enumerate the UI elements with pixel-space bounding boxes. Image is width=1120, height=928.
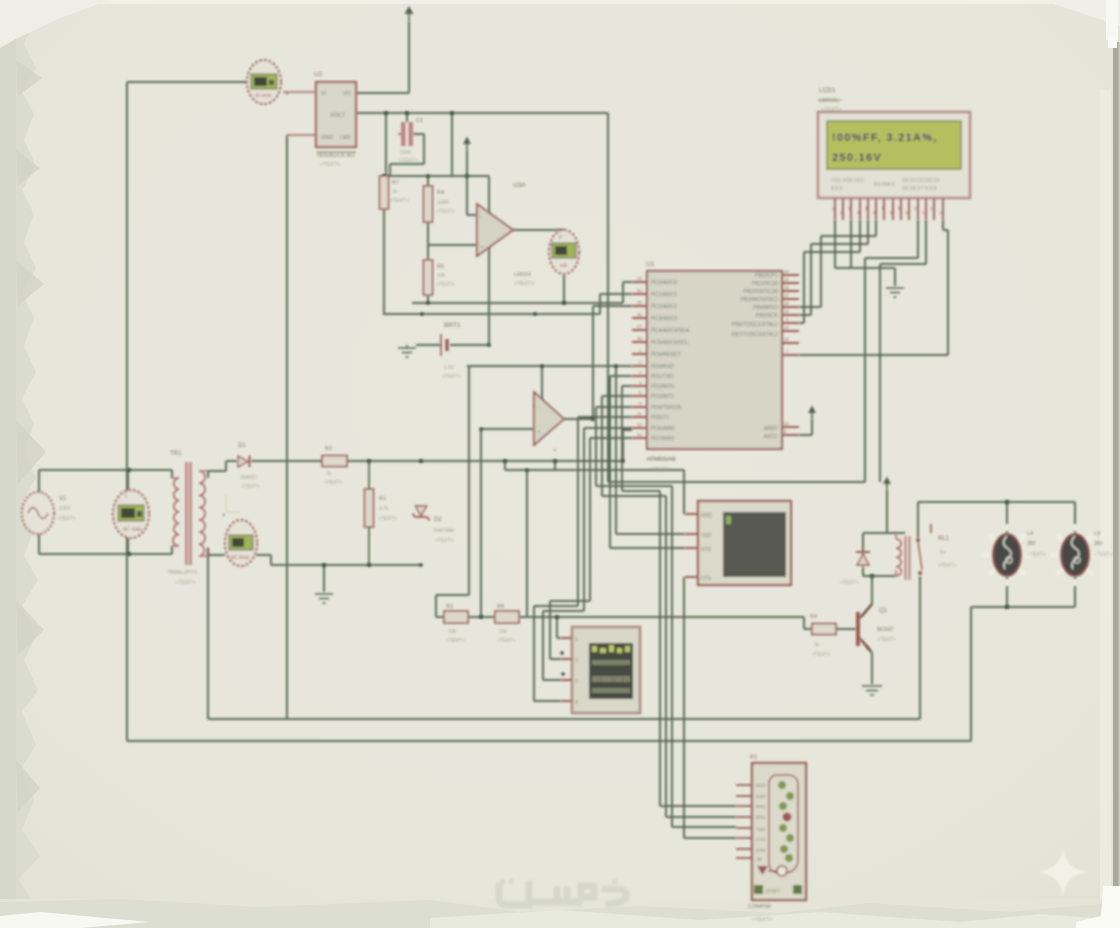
svg-text:PB7/TOSC2/XTAL2: PB7/TOSC2/XTAL2 bbox=[732, 332, 778, 338]
svg-text:1N4007: 1N4007 bbox=[240, 475, 258, 481]
svg-text:U3A: U3A bbox=[513, 182, 526, 189]
svg-text:12: 12 bbox=[637, 422, 642, 427]
svg-text:!00%FF, 3.21A%,: !00%FF, 3.21A%, bbox=[832, 132, 938, 144]
svg-text:R4: R4 bbox=[437, 190, 444, 196]
svg-text:AVCC: AVCC bbox=[764, 434, 778, 440]
svg-text:AC Amp: AC Amp bbox=[231, 555, 250, 561]
svg-text:<TEXT>: <TEXT> bbox=[436, 209, 455, 215]
svg-text:<TEXT>: <TEXT> bbox=[877, 637, 896, 643]
svg-text:D2: D2 bbox=[434, 517, 442, 523]
svg-text:1: 1 bbox=[575, 637, 578, 643]
svg-text:R7: R7 bbox=[392, 180, 399, 186]
svg-text:4.7k: 4.7k bbox=[379, 506, 389, 512]
svg-text:R4: R4 bbox=[810, 614, 817, 620]
svg-text:LM2: LM2 bbox=[340, 135, 351, 141]
svg-text:27: 27 bbox=[637, 324, 642, 329]
svg-text:VOLT: VOLT bbox=[330, 113, 346, 119]
svg-text:DCD: DCD bbox=[756, 783, 766, 788]
svg-text:PC1/ADC1: PC1/ADC1 bbox=[651, 292, 677, 298]
svg-text:10: 10 bbox=[905, 210, 910, 215]
svg-text:<TEXT>: <TEXT> bbox=[1094, 552, 1113, 558]
svg-text:PC2/ADC2: PC2/ADC2 bbox=[651, 304, 677, 310]
svg-text:<TEXT>: <TEXT> bbox=[650, 467, 670, 473]
svg-text:8 8 8: 8 8 8 bbox=[831, 186, 842, 192]
svg-text:RXD: RXD bbox=[701, 513, 712, 519]
svg-text:1k: 1k bbox=[814, 642, 820, 648]
svg-text:250.16V: 250.16V bbox=[832, 152, 882, 164]
svg-text:20: 20 bbox=[784, 337, 789, 342]
svg-text:10: 10 bbox=[784, 325, 789, 330]
svg-text:4: 4 bbox=[575, 700, 578, 706]
svg-text:D0 D1 D2 D3 D4: D0 D1 D2 D3 D4 bbox=[902, 178, 940, 184]
svg-text:U2: U2 bbox=[314, 71, 323, 78]
svg-text:RL1: RL1 bbox=[938, 536, 950, 542]
svg-text:+: + bbox=[124, 494, 128, 500]
svg-text:-: - bbox=[480, 215, 482, 221]
svg-text:10k: 10k bbox=[437, 273, 446, 279]
svg-text:TRAN-2P2S: TRAN-2P2S bbox=[167, 570, 198, 576]
svg-text:<TEXT>: <TEXT> bbox=[442, 374, 461, 380]
svg-text:PB2/SS/OC1B: PB2/SS/OC1B bbox=[744, 289, 779, 295]
svg-text:<TEXT>: <TEXT> bbox=[378, 516, 397, 522]
svg-text:PD0/RXD: PD0/RXD bbox=[651, 364, 674, 370]
svg-text:R3: R3 bbox=[446, 604, 453, 610]
svg-text:BC547: BC547 bbox=[877, 627, 894, 633]
svg-text:+: + bbox=[222, 513, 226, 519]
svg-text:PB1/OC1A: PB1/OC1A bbox=[752, 281, 778, 287]
svg-text:18: 18 bbox=[784, 301, 789, 306]
svg-text:R8: R8 bbox=[497, 604, 504, 610]
svg-text:PD3/INT1: PD3/INT1 bbox=[651, 394, 674, 400]
svg-text:<TEXT>: <TEXT> bbox=[812, 652, 831, 658]
svg-text:<TEXT>: <TEXT> bbox=[1027, 552, 1046, 558]
svg-text:2: 2 bbox=[575, 658, 578, 664]
svg-text:12: 12 bbox=[922, 210, 927, 215]
svg-text:<TEXT>: <TEXT> bbox=[390, 198, 409, 204]
svg-text:U1: U1 bbox=[646, 261, 655, 268]
svg-text:28V: 28V bbox=[1094, 541, 1104, 547]
svg-text:R2: R2 bbox=[325, 446, 332, 452]
svg-text:CTS: CTS bbox=[701, 576, 712, 582]
svg-text:<TEXT>: <TEXT> bbox=[324, 480, 343, 486]
svg-text:11: 11 bbox=[914, 206, 919, 211]
svg-text:VI: VI bbox=[321, 91, 327, 97]
svg-text:1k: 1k bbox=[326, 471, 332, 477]
svg-text:<TEXT>: <TEXT> bbox=[436, 282, 455, 288]
svg-text:28: 28 bbox=[637, 336, 642, 341]
svg-text:15: 15 bbox=[784, 277, 789, 282]
svg-text:<TEXT>: <TEXT> bbox=[752, 917, 772, 923]
svg-text:<TEXT>: <TEXT> bbox=[938, 563, 957, 569]
svg-text:TR1: TR1 bbox=[170, 451, 182, 457]
svg-text:RTS: RTS bbox=[756, 815, 765, 820]
svg-text:19: 19 bbox=[784, 309, 789, 314]
svg-text:LCD1: LCD1 bbox=[819, 87, 836, 94]
svg-text:5V: 5V bbox=[940, 550, 947, 556]
svg-text:TXD: TXD bbox=[701, 533, 711, 539]
svg-text:GND: GND bbox=[321, 135, 333, 141]
svg-text:3: 3 bbox=[575, 679, 578, 685]
svg-text:13: 13 bbox=[637, 432, 642, 437]
svg-text:28V: 28V bbox=[1027, 541, 1037, 547]
svg-text:<TEXT>: <TEXT> bbox=[446, 638, 465, 644]
svg-text:PD1/TXD: PD1/TXD bbox=[651, 374, 674, 380]
svg-text:V1: V1 bbox=[59, 496, 67, 502]
svg-text:D1: D1 bbox=[238, 443, 246, 449]
svg-text:PD7/AIN1: PD7/AIN1 bbox=[651, 436, 675, 442]
svg-text:PD2/INT0: PD2/INT0 bbox=[651, 384, 674, 390]
svg-text:VO: VO bbox=[343, 91, 352, 97]
svg-text:14: 14 bbox=[784, 269, 789, 274]
svg-text:PB3/MOSI/OC2: PB3/MOSI/OC2 bbox=[741, 297, 778, 303]
svg-text:17: 17 bbox=[784, 293, 789, 298]
svg-text:-: - bbox=[537, 405, 539, 411]
svg-text:AC Volts: AC Volts bbox=[123, 527, 143, 533]
svg-text:<TEXT>: <TEXT> bbox=[840, 580, 859, 586]
svg-text:7805/BUCK-BO: 7805/BUCK-BO bbox=[316, 153, 356, 159]
svg-text:BRT1: BRT1 bbox=[444, 322, 461, 329]
svg-text:+: + bbox=[553, 448, 557, 454]
svg-text:D5 D6 D7 8 8 8: D5 D6 D7 8 8 8 bbox=[902, 186, 937, 192]
svg-text:1N4744A: 1N4744A bbox=[433, 528, 455, 534]
svg-text:PC0/ADC0: PC0/ADC0 bbox=[651, 280, 677, 286]
svg-text:23: 23 bbox=[637, 276, 642, 281]
svg-text:PC3/ADC3: PC3/ADC3 bbox=[651, 316, 677, 322]
svg-text:PB5/SCK: PB5/SCK bbox=[756, 313, 779, 319]
svg-text:AREF: AREF bbox=[764, 426, 779, 432]
svg-text:LM324: LM324 bbox=[514, 272, 531, 278]
svg-text:C2: C2 bbox=[416, 118, 423, 124]
svg-text:PC4/ADC4/SDA: PC4/ADC4/SDA bbox=[651, 328, 690, 334]
svg-text:COMPIM: COMPIM bbox=[748, 904, 771, 910]
svg-text:11: 11 bbox=[637, 411, 642, 416]
svg-text:R5: R5 bbox=[437, 264, 444, 270]
svg-text:PD5/T1: PD5/T1 bbox=[651, 415, 669, 421]
svg-text:<TEXT>: <TEXT> bbox=[241, 484, 260, 490]
svg-text:L3: L3 bbox=[1094, 531, 1100, 537]
svg-text:<TEXT>: <TEXT> bbox=[514, 281, 534, 287]
svg-text:1P0RT: 1P0RT bbox=[765, 889, 780, 895]
svg-text:PC5/ADC5/SCL: PC5/ADC5/SCL bbox=[651, 340, 689, 346]
svg-text:100n: 100n bbox=[400, 150, 411, 156]
svg-text:PD6/AIN0: PD6/AIN0 bbox=[651, 426, 675, 432]
svg-text:RS RW E: RS RW E bbox=[874, 182, 896, 188]
svg-text:DSR: DSR bbox=[756, 794, 766, 799]
svg-text:RI: RI bbox=[757, 857, 762, 862]
svg-text:100R: 100R bbox=[437, 200, 449, 206]
svg-text:dc ama: dc ama bbox=[255, 93, 272, 99]
svg-text:TXD: TXD bbox=[756, 827, 766, 832]
svg-text:ATMEGA8: ATMEGA8 bbox=[647, 457, 676, 463]
svg-text:L4: L4 bbox=[1027, 531, 1033, 537]
svg-text:PC6/RESET: PC6/RESET bbox=[651, 352, 681, 358]
svg-text:mA: mA bbox=[560, 263, 568, 269]
svg-text:R1: R1 bbox=[379, 496, 386, 502]
svg-text:16: 16 bbox=[784, 285, 789, 290]
svg-text:25: 25 bbox=[637, 300, 642, 305]
svg-text:<TEXT>: <TEXT> bbox=[435, 538, 454, 544]
svg-text:RTS: RTS bbox=[701, 547, 712, 553]
svg-text:10k: 10k bbox=[499, 629, 508, 635]
svg-text:13: 13 bbox=[930, 206, 935, 211]
svg-text:P1: P1 bbox=[750, 755, 758, 761]
svg-text:+: + bbox=[537, 430, 541, 436]
svg-text:<TEXT>: <TEXT> bbox=[57, 516, 76, 522]
svg-text:10k: 10k bbox=[448, 629, 457, 635]
svg-text:RXD: RXD bbox=[756, 804, 766, 809]
svg-text:PB6/TOSC1/XTAL1: PB6/TOSC1/XTAL1 bbox=[732, 322, 778, 328]
svg-text:<TEXT>: <TEXT> bbox=[399, 158, 418, 164]
svg-text:LM016L: LM016L bbox=[819, 98, 839, 104]
svg-text:PB0/ICP1: PB0/ICP1 bbox=[755, 273, 778, 279]
svg-text:<TEXT>: <TEXT> bbox=[175, 580, 195, 586]
svg-text:14: 14 bbox=[939, 210, 944, 215]
svg-text:26: 26 bbox=[637, 312, 642, 317]
svg-text:24: 24 bbox=[637, 288, 642, 293]
svg-text:1k: 1k bbox=[392, 189, 398, 195]
svg-text:220V: 220V bbox=[59, 506, 71, 512]
svg-text:Q1: Q1 bbox=[879, 608, 888, 614]
svg-text:+: + bbox=[480, 245, 484, 251]
svg-text:1.5V: 1.5V bbox=[444, 365, 455, 371]
svg-text:VSS VDD VEE: VSS VDD VEE bbox=[831, 178, 865, 184]
svg-text:PD4/T0/XCK: PD4/T0/XCK bbox=[651, 405, 682, 411]
svg-text:CTS: CTS bbox=[756, 837, 765, 842]
svg-text:21: 21 bbox=[784, 421, 789, 426]
svg-text:PB4/MISO: PB4/MISO bbox=[753, 305, 778, 311]
svg-text:<TEXT>: <TEXT> bbox=[497, 638, 516, 644]
svg-text:<TEXT>: <TEXT> bbox=[320, 162, 340, 168]
svg-text:DTR: DTR bbox=[756, 848, 766, 853]
